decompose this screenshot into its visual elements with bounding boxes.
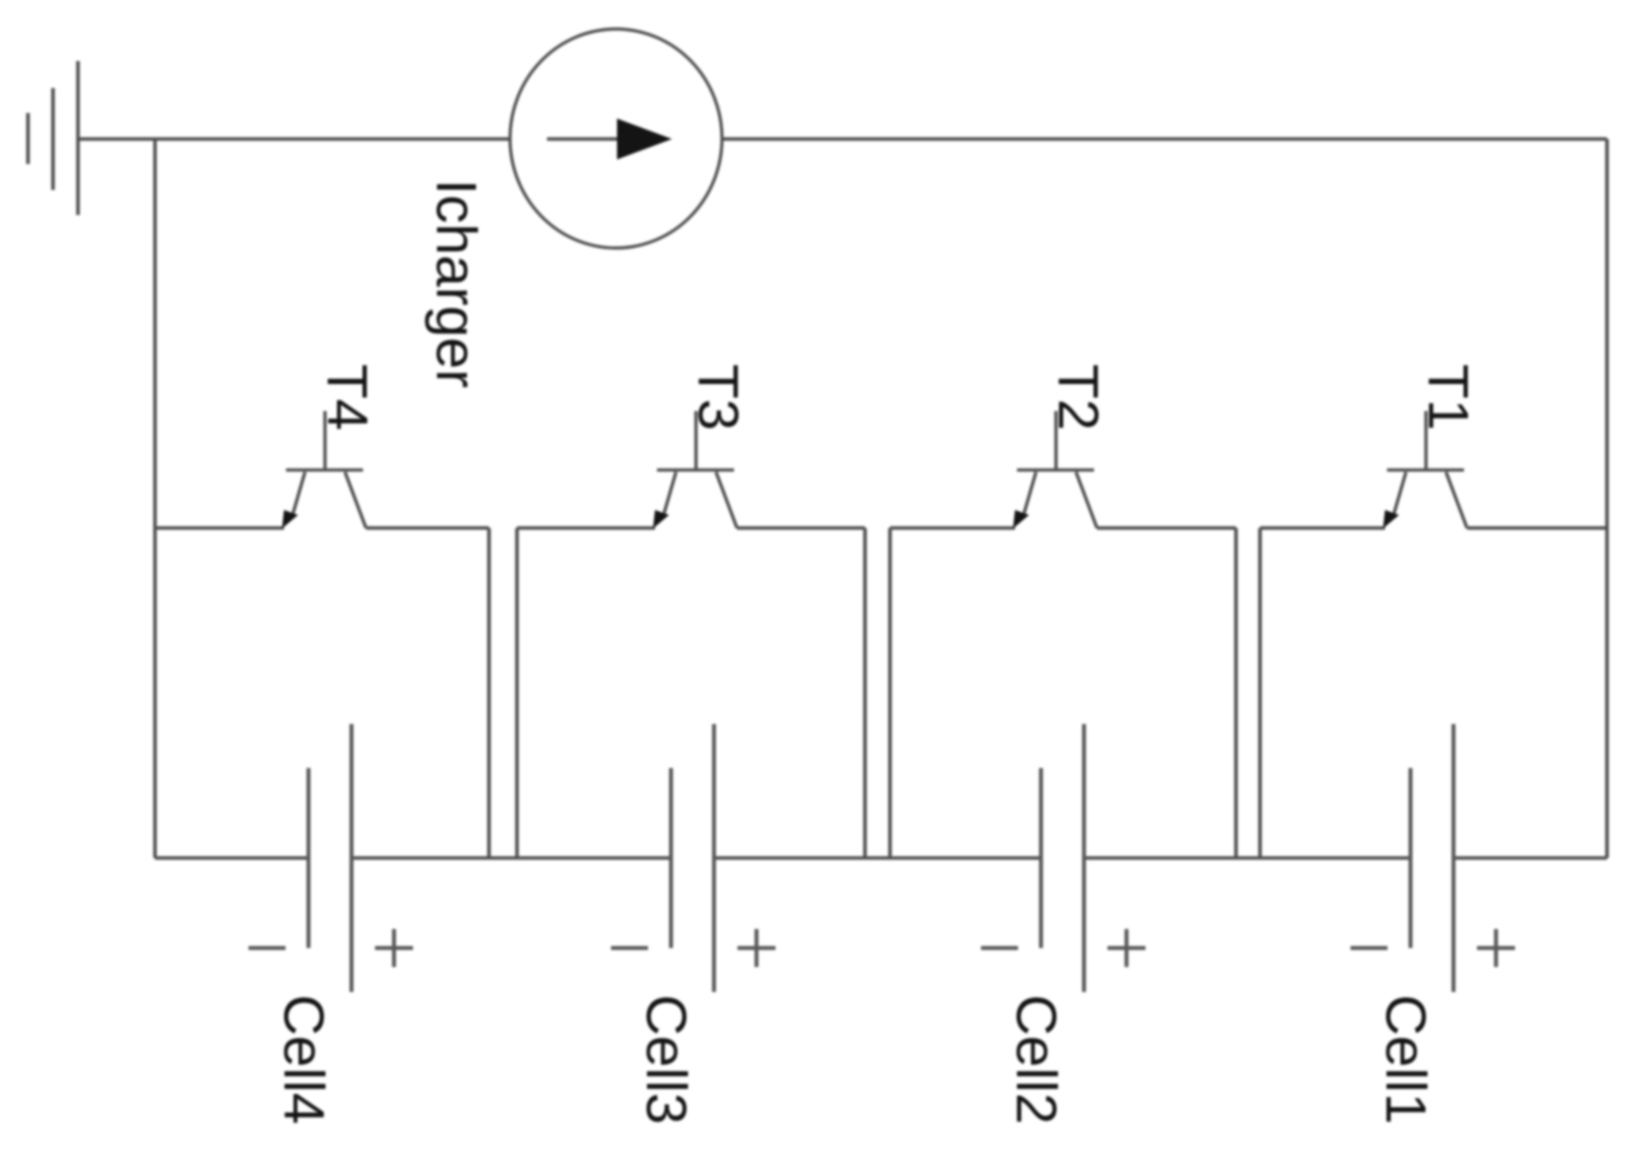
svg-text:Cell1: Cell1 bbox=[1374, 995, 1438, 1125]
svg-text:Icharger: Icharger bbox=[424, 179, 488, 388]
svg-text:T2: T2 bbox=[1046, 364, 1110, 431]
svg-text:Cell2: Cell2 bbox=[1004, 995, 1068, 1125]
svg-text:T3: T3 bbox=[686, 364, 750, 431]
svg-text:Cell4: Cell4 bbox=[272, 995, 336, 1125]
svg-text:T1: T1 bbox=[1416, 364, 1480, 431]
svg-text:T4: T4 bbox=[315, 364, 379, 431]
svg-text:Cell3: Cell3 bbox=[634, 995, 698, 1125]
